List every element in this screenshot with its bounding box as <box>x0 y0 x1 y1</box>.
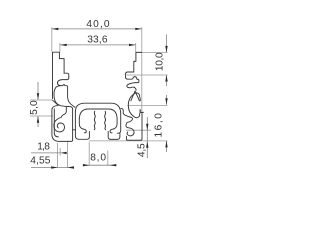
svg-text:5,0: 5,0 <box>29 100 40 115</box>
svg-text:16,0: 16,0 <box>154 113 165 138</box>
svg-text:10,0: 10,0 <box>154 52 165 71</box>
svg-text:40,0: 40,0 <box>86 19 110 30</box>
svg-text:33,6: 33,6 <box>87 35 108 46</box>
svg-text:4,55: 4,55 <box>30 156 50 167</box>
svg-text:4,5: 4,5 <box>137 143 148 157</box>
svg-text:1,8: 1,8 <box>37 141 50 152</box>
svg-text:8,0: 8,0 <box>90 152 106 163</box>
